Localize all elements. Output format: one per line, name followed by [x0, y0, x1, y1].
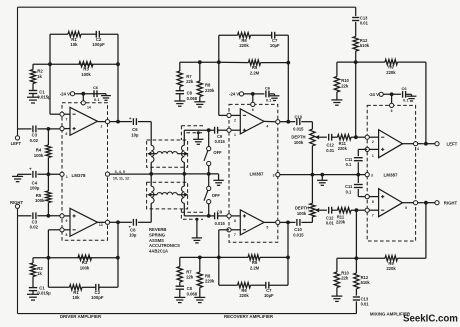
svg-text:7: 7	[372, 214, 374, 218]
label R5 2.2M top	[250, 65, 260, 75]
wire wiper to R11 bottom	[332, 209, 338, 211]
pin 9 stub	[60, 214, 70, 223]
op-amp U1b minus	[73, 229, 76, 231]
svg-text:-24 V: -24 V	[60, 91, 70, 96]
svg-text:C3: C3	[32, 219, 38, 224]
wire bias row top	[180, 61, 219, 63]
svg-text:LEFT: LEFT	[447, 141, 458, 146]
svg-text:SeekIC.com: SeekIC.com	[403, 313, 458, 324]
wire recovery fb row top	[219, 34, 288, 36]
wire top bypass (LEFT dry signal)	[18, 6, 356, 8]
node R3 right	[116, 62, 120, 66]
svg-text:4AB2C1A: 4AB2C1A	[149, 248, 168, 253]
svg-text:RECOVERY AMPLIFIER: RECOVERY AMPLIFIER	[224, 314, 274, 319]
wiper arrow bottom	[315, 208, 327, 212]
op-amp U1a minus	[73, 113, 76, 115]
label DEPTH bottom	[295, 205, 309, 215]
reverb spring box bottom	[147, 182, 188, 209]
label LEFT out	[447, 141, 458, 146]
label RIGHT out	[444, 200, 458, 205]
wire centre tap ground	[213, 174, 223, 185]
svg-text:1: 1	[66, 175, 68, 179]
op-amp U2a triangle	[240, 109, 264, 134]
spring top	[147, 151, 188, 156]
wire U1a output	[98, 120, 119, 129]
node R8 bottom	[198, 256, 202, 260]
svg-text:ASSMS: ASSMS	[149, 238, 164, 243]
svg-text:0.01: 0.01	[360, 21, 369, 26]
ground right of C6 mixing	[406, 94, 417, 101]
svg-text:0.015: 0.015	[215, 139, 226, 144]
svg-text:100pF: 100pF	[91, 295, 104, 300]
node C4/R5	[47, 172, 51, 176]
wire centre tap row	[151, 173, 218, 175]
resistor R1	[68, 32, 81, 37]
capacitor C13 top	[352, 18, 359, 21]
node C3/R5 bottom	[47, 214, 51, 218]
pin 8 mixing	[365, 195, 379, 204]
svg-text:0.1: 0.1	[94, 97, 100, 102]
wire R9 row bottom	[356, 257, 426, 259]
label R6 bottom	[239, 288, 249, 298]
wire pickup row bottom	[184, 215, 227, 217]
capacitor C8 bottom	[176, 282, 184, 289]
pin 6 mixing	[390, 103, 394, 113]
node mixing out top	[424, 142, 428, 146]
wire centre to primary bottom	[150, 174, 152, 186]
svg-text:220k: 220k	[239, 293, 249, 298]
node switch top	[207, 128, 211, 132]
resistor R4	[46, 129, 51, 174]
label LM387 mixing	[383, 173, 398, 178]
wire C4 row	[18, 173, 60, 175]
pin 7 mixing	[365, 208, 379, 217]
wire row R3 bottom	[33, 257, 118, 259]
svg-text:100k: 100k	[81, 72, 91, 77]
svg-text:10µ: 10µ	[129, 233, 137, 238]
label LM387 recovery	[249, 172, 264, 177]
wire drive coil bottom stem	[150, 203, 152, 222]
resistor R3	[79, 62, 93, 67]
svg-text:C6: C6	[93, 85, 99, 90]
node recovery out bottom	[286, 221, 290, 225]
svg-text:0.02: 0.02	[30, 138, 39, 143]
resistor R6 top	[238, 33, 251, 38]
pickup coil bottom	[181, 186, 184, 203]
svg-text:10µF: 10µF	[270, 43, 280, 48]
node minus input top	[354, 135, 358, 139]
svg-text:0.01: 0.01	[361, 302, 370, 307]
wire R12 to node	[355, 51, 357, 62]
svg-text:3: 3	[371, 173, 373, 177]
wire recovery out column top	[287, 35, 289, 122]
resistor R5 2.2M top	[249, 60, 261, 65]
node mixing fb top	[354, 60, 358, 64]
capacitor C8 top	[176, 87, 184, 94]
svg-text:C6: C6	[402, 86, 408, 91]
label R9 top	[386, 65, 396, 75]
svg-text:22k: 22k	[341, 276, 349, 281]
wire left border upper / LEFT input stem	[17, 7, 19, 136]
label C7 bottom	[264, 288, 274, 298]
svg-text:100pF: 100pF	[92, 42, 105, 47]
label C6 recovery supply	[265, 85, 272, 102]
pin 14 Vs	[81, 101, 91, 110]
node recovery out top	[286, 120, 290, 124]
svg-text:7: 7	[66, 117, 68, 121]
label R12 bottom	[361, 275, 371, 285]
svg-text:R4: R4	[36, 148, 42, 153]
svg-text:14: 14	[87, 105, 91, 109]
resistor R9 bottom	[385, 256, 398, 261]
svg-text:220k: 220k	[205, 279, 215, 284]
chassis tab bottom	[181, 209, 205, 219]
label C9 bottom	[215, 209, 226, 226]
svg-text:100µ: 100µ	[30, 186, 40, 191]
node -24V mixing	[390, 92, 394, 96]
ground below R8 bottom	[194, 288, 205, 303]
ground right of C6 driver	[100, 94, 111, 101]
svg-text:DRIVER AMPLIFIER: DRIVER AMPLIFIER	[60, 314, 102, 319]
op-amp U2b minus	[243, 229, 246, 231]
pin 3 recovery	[273, 173, 280, 178]
node primary centre	[149, 172, 153, 176]
svg-text:R3: R3	[83, 67, 89, 72]
op-amp U2a minus	[243, 114, 246, 116]
ground centre row	[317, 175, 327, 186]
node R3b right	[116, 256, 120, 260]
svg-text:0.01: 0.01	[326, 148, 335, 153]
wire U1b fb drop	[47, 230, 49, 287]
wire minus col bottom	[355, 210, 357, 258]
svg-text:220k: 220k	[336, 220, 346, 225]
resistor R7 top	[177, 62, 182, 86]
op-amp U2 LM387 box	[229, 104, 278, 242]
label C6 mixing supply	[402, 86, 410, 103]
svg-text:220k: 220k	[239, 43, 249, 48]
pin 2 mixing	[365, 135, 379, 144]
resistor R6 bottom	[238, 283, 251, 288]
label R10 top	[341, 78, 349, 88]
capacitor C10 top	[297, 118, 300, 125]
svg-text:1: 1	[372, 154, 374, 158]
transducer coil primary bottom	[151, 186, 154, 203]
wire to C6 coupling top	[118, 121, 151, 123]
wire left border lower / RIGHT input stem	[17, 209, 19, 314]
svg-text:7: 7	[234, 233, 236, 237]
wire U2a output	[264, 120, 288, 129]
svg-text:ACCUTRONICS: ACCUTRONICS	[149, 243, 180, 248]
svg-text:13: 13	[99, 223, 103, 227]
capacitor C6 coupling top	[129, 116, 136, 125]
wire recovery fb row bottom	[219, 257, 288, 285]
svg-text:LM387: LM387	[249, 172, 264, 177]
svg-text:-24 V: -24 V	[369, 92, 379, 97]
wire row R3	[33, 63, 118, 65]
capacitor C4	[29, 167, 36, 178]
node driver out bottom	[116, 220, 120, 224]
node C11 junction	[356, 173, 360, 177]
svg-text:6: 6	[252, 108, 254, 112]
svg-text:2.2M: 2.2M	[250, 265, 260, 270]
label R10 bottom	[341, 270, 349, 280]
node R5/out column bottom	[286, 256, 290, 260]
capacitor C11 bottom	[354, 175, 367, 197]
label C12 bottom	[326, 215, 335, 225]
wire pickup row top	[184, 129, 227, 131]
node R3b left	[47, 256, 51, 260]
wire out to C10 top	[288, 121, 312, 123]
-24V supply recovery	[229, 92, 264, 97]
wire LEFT input row	[18, 128, 60, 130]
wire row R1/C2 bottom	[48, 286, 117, 288]
switch mute top	[204, 130, 211, 174]
svg-text:10µ: 10µ	[131, 132, 139, 137]
wire pin14 stem	[82, 94, 84, 101]
resistor R5	[46, 174, 51, 216]
svg-text:0.015µ: 0.015µ	[37, 95, 51, 100]
capacitor C1 bottom	[29, 277, 37, 291]
label R8 top	[205, 83, 215, 93]
svg-text:220k: 220k	[386, 266, 396, 271]
chassis ground bottom	[192, 218, 202, 243]
wire pickup top stem	[183, 130, 185, 145]
label R3	[81, 67, 91, 77]
label R1 bottom	[72, 290, 80, 300]
svg-text:220k: 220k	[338, 146, 348, 151]
svg-text:100k: 100k	[80, 266, 90, 271]
wire pickup top to centre	[183, 162, 185, 174]
label reverb unit	[149, 227, 180, 253]
pin 8 stub	[48, 228, 70, 237]
ground below R8 top	[194, 97, 205, 108]
svg-text:8: 8	[372, 200, 374, 204]
label C7 top	[270, 38, 280, 48]
label C1 bottom	[37, 286, 51, 296]
node bias/fb bottom	[217, 256, 221, 260]
capacitor C3	[33, 126, 36, 133]
RIGHT label	[10, 200, 23, 205]
op-amp U3a triangle	[379, 130, 403, 158]
label C11 top	[345, 157, 353, 167]
op-amp U2a plus	[243, 129, 246, 132]
label R6 top	[239, 38, 249, 48]
svg-text:0.015: 0.015	[293, 127, 304, 132]
svg-text:4: 4	[417, 147, 419, 151]
resistor R1 bottom	[70, 285, 83, 290]
wire R5 row bottom	[219, 256, 288, 258]
label OFF top	[213, 150, 222, 155]
svg-text:RIGHT: RIGHT	[444, 200, 458, 205]
resistor R2	[30, 64, 35, 83]
label C2	[92, 37, 105, 47]
label C13 top	[360, 16, 369, 26]
svg-text:LEFT: LEFT	[11, 141, 22, 146]
capacitor C12 top	[329, 134, 332, 141]
node centre row ground	[320, 173, 324, 177]
wire minus col top	[355, 62, 357, 137]
wire U2b fb drop	[219, 230, 229, 258]
wire U3b output	[403, 201, 424, 210]
wire primary top to centre	[150, 162, 152, 174]
pin 1 recovery	[227, 128, 240, 137]
resistor R8 bottom	[197, 257, 202, 287]
wire pin6 stem mixing	[391, 94, 393, 103]
svg-text:0.068: 0.068	[187, 96, 198, 101]
ground below C1	[27, 94, 39, 104]
resistor R10 bottom	[334, 258, 356, 287]
node mixing out bottom	[424, 201, 428, 205]
label RECOVERY AMPLIFIER	[224, 314, 274, 319]
wire recovery minus column top	[219, 35, 227, 115]
label R7 top	[186, 74, 194, 84]
label C8 top	[187, 91, 198, 101]
svg-text:R2: R2	[37, 69, 43, 74]
label R7 bottom	[186, 269, 194, 279]
pin 6 stub	[60, 127, 70, 136]
svg-text:6: 6	[391, 109, 393, 113]
wire pin6 stem recovery	[252, 94, 254, 102]
svg-text:OFF: OFF	[213, 150, 222, 155]
op-amp U2b triangle	[240, 210, 264, 235]
capacitor C13 bottom	[353, 297, 360, 300]
ground left of C4	[12, 174, 23, 181]
svg-text:220k: 220k	[386, 70, 396, 75]
svg-text:+: +	[29, 167, 32, 172]
svg-text:R8: R8	[205, 83, 211, 88]
wire U2b output	[264, 220, 288, 229]
ground below C1 bottom	[27, 291, 39, 301]
svg-text:5: 5	[405, 206, 407, 210]
node bias/fb top	[217, 60, 221, 64]
node pot bottom col	[311, 173, 315, 177]
svg-text:510k: 510k	[361, 280, 371, 285]
potentiometer DEPTH bottom	[310, 175, 315, 223]
label C6 coupling top	[131, 127, 139, 137]
node R5/out column top	[286, 61, 290, 65]
label R12 top	[360, 38, 370, 48]
label R9 bottom	[386, 261, 396, 271]
capacitor C12 bottom	[329, 207, 332, 214]
wire U1b output	[98, 220, 119, 227]
label R4	[34, 148, 44, 158]
svg-text:220k: 220k	[205, 88, 215, 93]
label C1	[37, 90, 51, 100]
svg-text:0.015µ: 0.015µ	[37, 291, 51, 296]
svg-text:100k: 100k	[297, 211, 307, 216]
resistor R3 bottom	[78, 255, 92, 260]
resistor R10 top	[334, 62, 356, 92]
resistor R5 2.2M bottom	[248, 255, 260, 260]
label C4	[30, 180, 40, 190]
node switch row top	[207, 172, 211, 176]
label C3 right ch	[30, 219, 39, 229]
capacitor C3 right ch	[33, 212, 36, 219]
chassis ground top	[193, 131, 203, 144]
wire to C6 coupling bottom	[118, 221, 151, 223]
ground below C8 top	[174, 94, 185, 107]
svg-text:2: 2	[101, 124, 103, 128]
op-amp U1a triangle	[70, 107, 98, 135]
svg-text:DEPTH: DEPTH	[295, 205, 309, 210]
wire driver fb vertical bottom	[117, 222, 119, 287]
wire U3a output	[403, 142, 424, 151]
node minus input bottom	[355, 208, 359, 212]
svg-text:0.015: 0.015	[215, 221, 226, 226]
node pickup centre	[182, 172, 186, 176]
capacitor C10 bottom	[297, 219, 300, 226]
label C8 bottom	[187, 286, 198, 296]
svg-text:6: 6	[66, 132, 68, 136]
svg-text:+: +	[129, 116, 132, 121]
svg-text:SPRING: SPRING	[149, 233, 165, 238]
svg-text:10k: 10k	[70, 42, 78, 47]
svg-text:-24 V: -24 V	[229, 92, 239, 97]
wire R11 to pin top	[351, 136, 365, 138]
node -24V recovery	[251, 92, 255, 96]
op-amp U1b plus	[73, 214, 76, 217]
wire feedback row R1/C2	[50, 33, 118, 35]
svg-text:9: 9	[66, 219, 68, 223]
capacitor C2	[96, 31, 99, 38]
label R2	[37, 69, 43, 79]
svg-text:100k: 100k	[34, 153, 44, 158]
capacitor C6 mixing supply	[403, 91, 406, 98]
capacitor C7 top	[272, 32, 275, 39]
capacitor C9 top	[215, 127, 218, 134]
svg-text:LM378: LM378	[71, 173, 86, 178]
wire feedback left drop	[49, 34, 51, 114]
transducer coil primary top	[151, 145, 154, 162]
svg-text:1k: 1k	[37, 271, 42, 276]
resistor R11 top	[338, 135, 352, 140]
pickup coil top	[181, 145, 184, 162]
svg-text:8: 8	[234, 219, 236, 223]
node R3 left	[48, 62, 52, 66]
wire drive coil top stem	[150, 122, 152, 146]
ground below R10 top	[331, 92, 342, 105]
label R5	[35, 193, 45, 203]
spring bottom	[147, 192, 188, 197]
label C10 top	[293, 114, 304, 131]
svg-text:R3: R3	[82, 260, 88, 265]
wire recovery out column bottom	[287, 222, 289, 285]
label R2 bottom	[37, 266, 43, 276]
label R5 2.2M bottom	[250, 260, 260, 270]
wire centre to pickup bottom	[183, 174, 185, 186]
svg-text:0.02: 0.02	[30, 225, 39, 230]
resistor R7 bottom	[177, 257, 182, 282]
svg-text:C10: C10	[295, 114, 303, 119]
svg-text:1k: 1k	[37, 74, 42, 79]
resistor R9 top	[385, 59, 398, 64]
svg-text:3, 4, 5: 3, 4, 5	[115, 170, 125, 174]
label C11 bottom	[345, 184, 353, 194]
LEFT label	[11, 141, 22, 146]
svg-text:2.2M: 2.2M	[250, 70, 260, 75]
svg-text:0.1: 0.1	[346, 189, 352, 194]
wire C13 column top	[355, 7, 357, 36]
node R8 top	[198, 60, 202, 64]
pin 6 recovery	[251, 102, 255, 112]
potentiometer DEPTH top	[310, 122, 315, 175]
label MIXING AMPLIFIER	[370, 312, 411, 317]
capacitor C2 bottom	[96, 284, 99, 291]
reverb spring box top	[147, 140, 188, 167]
wiper arrow top	[315, 135, 327, 139]
label C6 coupling bottom	[129, 228, 137, 238]
svg-text:C3: C3	[32, 133, 38, 138]
